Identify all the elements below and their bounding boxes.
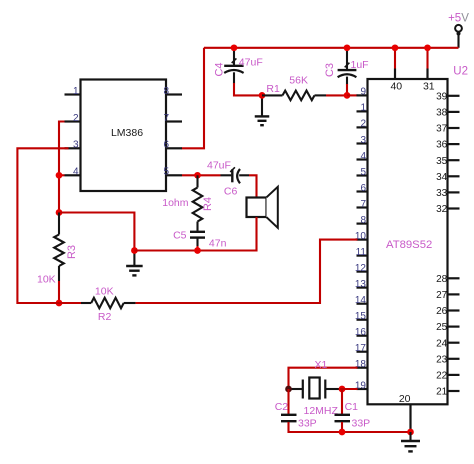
capacitor C2 bbox=[281, 414, 297, 416]
svg-text:47uF: 47uF bbox=[239, 56, 263, 68]
svg-text:3: 3 bbox=[73, 140, 79, 151]
pin 2 (LM386 left) bbox=[65, 120, 81, 122]
pin 2 (U2 left) bbox=[357, 126, 368, 128]
pin 31 bbox=[426, 69, 428, 80]
wire C5 to node bbox=[196, 246, 198, 251]
svg-text:5: 5 bbox=[360, 167, 366, 178]
svg-text:10K: 10K bbox=[95, 286, 114, 298]
pin 17 (U2 left) bbox=[357, 351, 368, 353]
pin 37 (U2 right) bbox=[448, 127, 460, 129]
svg-text:9: 9 bbox=[360, 87, 366, 98]
wire crystal left to C2 bbox=[287, 389, 289, 414]
pin 18 (U2 left) bbox=[357, 367, 368, 369]
wire R3 top to ground drop bbox=[59, 213, 134, 251]
svg-text:5: 5 bbox=[164, 167, 170, 178]
pin 24 (U2 right) bbox=[448, 342, 460, 344]
svg-text:3: 3 bbox=[360, 135, 366, 146]
node rail/pin40 bbox=[392, 44, 399, 51]
wire rail to LM386 pin 6 bbox=[182, 48, 205, 149]
node R1/C3/pin9 junction bbox=[344, 92, 351, 99]
pin 8 (LM386 right) bbox=[166, 93, 182, 95]
pin 7 (U2 left) bbox=[357, 206, 368, 208]
node pin5/R4/C6 junction bbox=[194, 172, 201, 179]
ground (C4/R1) bbox=[261, 95, 263, 116]
pin 20 bbox=[409, 404, 411, 431]
power terminal +5V bbox=[457, 32, 459, 48]
ground (C5 net) bbox=[133, 251, 135, 267]
node R3/R2 junction bbox=[56, 300, 63, 307]
svg-text:U2: U2 bbox=[453, 65, 468, 77]
svg-text:2: 2 bbox=[360, 119, 366, 130]
svg-text:38: 38 bbox=[436, 108, 448, 119]
node C1/bottom rail junction bbox=[339, 429, 346, 436]
pin 26 (U2 right) bbox=[448, 309, 460, 311]
svg-text:21: 21 bbox=[436, 387, 448, 398]
svg-text:C4: C4 bbox=[214, 62, 226, 76]
svg-text:28: 28 bbox=[436, 274, 448, 285]
op-amp U1 LM386 body bbox=[81, 80, 167, 192]
wire C1 to bottom rail bbox=[341, 422, 343, 432]
node crystal right / C1 junction bbox=[339, 386, 346, 393]
svg-text:7: 7 bbox=[360, 199, 366, 210]
svg-text:R2: R2 bbox=[98, 311, 112, 323]
svg-text:47n: 47n bbox=[209, 237, 227, 249]
resistor R1 bbox=[262, 94, 283, 96]
pin 8 (U2 left) bbox=[357, 223, 368, 225]
node pin20/ground junction bbox=[407, 429, 414, 436]
svg-text:33: 33 bbox=[436, 188, 448, 199]
crystal X1 bbox=[289, 388, 303, 390]
wire +5V rail bbox=[204, 47, 459, 49]
svg-text:6: 6 bbox=[164, 140, 170, 151]
pin 6 (U2 left) bbox=[357, 190, 368, 192]
capacitor C6 bbox=[221, 174, 232, 176]
svg-text:C2: C2 bbox=[275, 401, 289, 413]
capacitor C3 bbox=[346, 49, 348, 70]
wire C6 to speaker bbox=[249, 175, 257, 197]
svg-text:15: 15 bbox=[355, 311, 367, 322]
svg-text:1: 1 bbox=[360, 103, 366, 114]
capacitor C4 bbox=[233, 49, 235, 65]
wire crystal right to C1 bbox=[341, 389, 343, 414]
capacitor C1 bbox=[335, 414, 351, 416]
pin 1 (LM386 left) bbox=[65, 93, 81, 95]
svg-text:6: 6 bbox=[360, 183, 366, 194]
svg-text:2: 2 bbox=[73, 113, 79, 124]
svg-text:1uF: 1uF bbox=[351, 59, 369, 71]
wire ground node to C5 node bbox=[134, 249, 197, 251]
svg-text:56K: 56K bbox=[289, 75, 308, 87]
node rail/pin31 bbox=[424, 44, 431, 51]
wire LM386 pin4 stub bbox=[59, 174, 65, 176]
pin 23 (U2 right) bbox=[448, 358, 460, 360]
pin 36 (U2 right) bbox=[448, 143, 460, 145]
pin 5 (LM386 right) bbox=[166, 174, 182, 176]
pin 9 (U2 left) bbox=[357, 94, 368, 96]
wire node to C6 bbox=[198, 174, 221, 176]
svg-text:33P: 33P bbox=[298, 417, 317, 429]
pin 33 (U2 right) bbox=[448, 191, 460, 193]
svg-text:33P: 33P bbox=[352, 417, 371, 429]
svg-text:39: 39 bbox=[436, 91, 448, 102]
pin 14 (U2 left) bbox=[357, 303, 368, 305]
pin 15 (U2 left) bbox=[357, 319, 368, 321]
pin 10 (U2 left) bbox=[357, 239, 368, 241]
pin 3 (LM386 left) bbox=[65, 147, 81, 149]
svg-text:26: 26 bbox=[436, 306, 448, 317]
pin 22 (U2 right) bbox=[448, 374, 460, 376]
wire LM386 pin2 down bbox=[59, 122, 65, 213]
svg-text:32: 32 bbox=[436, 204, 448, 215]
pin 11 (U2 left) bbox=[357, 255, 368, 257]
node C4/ground/R1 junction bbox=[259, 92, 266, 99]
wire R1 to pin9 node bbox=[326, 94, 347, 96]
wire rail to pin 31 bbox=[426, 48, 428, 69]
pin 4 (U2 left) bbox=[357, 158, 368, 160]
resistor R2 bbox=[81, 302, 91, 304]
svg-text:8: 8 bbox=[360, 215, 366, 226]
node R3 top junction bbox=[56, 209, 63, 216]
svg-text:C6: C6 bbox=[224, 186, 238, 198]
wire R3 bottom bbox=[58, 281, 60, 303]
pin 7 (LM386 right) bbox=[166, 120, 182, 122]
IC U2 AT89S52 body bbox=[368, 79, 448, 404]
resistor R4 bbox=[196, 175, 198, 187]
wire crystal to pin 19 bbox=[340, 388, 358, 390]
pin 3 (U2 left) bbox=[357, 142, 368, 144]
pin 1 (U2 left) bbox=[357, 110, 368, 112]
pin 13 (U2 left) bbox=[357, 287, 368, 289]
wire node to pin 9 bbox=[347, 94, 358, 96]
svg-text:35: 35 bbox=[436, 156, 448, 167]
svg-text:47uF: 47uF bbox=[207, 160, 231, 172]
svg-text:7: 7 bbox=[164, 113, 170, 124]
pin 12 (U2 left) bbox=[357, 271, 368, 273]
svg-text:1ohm: 1ohm bbox=[162, 197, 189, 209]
wire pin18 to crystal left bbox=[289, 368, 358, 389]
pin 21 (U2 right) bbox=[448, 390, 460, 392]
svg-text:8: 8 bbox=[164, 86, 170, 97]
svg-text:24: 24 bbox=[436, 338, 448, 349]
pin 27 (U2 right) bbox=[448, 293, 460, 295]
svg-text:31: 31 bbox=[423, 81, 435, 93]
pin 38 (U2 right) bbox=[448, 111, 460, 113]
svg-text:11: 11 bbox=[356, 247, 367, 258]
svg-text:13: 13 bbox=[355, 279, 367, 290]
svg-text:R3: R3 bbox=[66, 245, 78, 259]
pin 34 (U2 right) bbox=[448, 175, 460, 177]
svg-text:X1: X1 bbox=[315, 359, 328, 371]
svg-text:36: 36 bbox=[436, 140, 448, 151]
pin 5 (U2 left) bbox=[357, 174, 368, 176]
svg-text:12: 12 bbox=[355, 263, 367, 274]
wire pin5 to node bbox=[182, 174, 198, 176]
wire C4 to ground node bbox=[234, 83, 262, 95]
wire speaker to C5 node bbox=[198, 217, 257, 251]
svg-text:4: 4 bbox=[73, 167, 79, 178]
pin 25 (U2 right) bbox=[448, 326, 460, 328]
svg-text:17: 17 bbox=[355, 343, 367, 354]
svg-text:4: 4 bbox=[360, 151, 366, 162]
pin 40 bbox=[394, 69, 396, 80]
pin 32 (U2 right) bbox=[448, 207, 460, 209]
svg-text:C3: C3 bbox=[324, 63, 336, 77]
node rail/C3 bbox=[344, 44, 351, 51]
svg-text:22: 22 bbox=[436, 371, 448, 382]
speaker LS1 bbox=[247, 198, 267, 218]
svg-text:10K: 10K bbox=[37, 273, 56, 285]
svg-text:20: 20 bbox=[399, 393, 411, 405]
svg-text:+5V: +5V bbox=[448, 12, 469, 24]
pin 16 (U2 left) bbox=[357, 335, 368, 337]
svg-text:40: 40 bbox=[390, 81, 402, 93]
pin 4 (LM386 left) bbox=[65, 174, 81, 176]
svg-text:16: 16 bbox=[355, 327, 367, 338]
wire rail to pin 40 bbox=[394, 48, 396, 69]
svg-text:12MHZ: 12MHZ bbox=[304, 405, 339, 417]
node C5/speaker/ground junction bbox=[194, 247, 201, 254]
pin 28 (U2 right) bbox=[448, 277, 460, 279]
svg-text:14: 14 bbox=[355, 295, 367, 306]
svg-text:R4: R4 bbox=[202, 197, 214, 211]
ground (pin 20) bbox=[409, 432, 411, 441]
node pin4 junction bbox=[56, 172, 63, 179]
svg-text:AT89S52: AT89S52 bbox=[386, 239, 432, 251]
pin 19 (U2 left) bbox=[357, 388, 368, 390]
pin 35 (U2 right) bbox=[448, 159, 460, 161]
wire R2 to pin 10 bbox=[136, 240, 358, 303]
svg-text:25: 25 bbox=[436, 322, 448, 333]
svg-text:34: 34 bbox=[436, 172, 448, 183]
wire C3 to pin9 node bbox=[346, 84, 348, 95]
capacitor C5 bbox=[190, 231, 205, 233]
svg-text:C5: C5 bbox=[173, 230, 187, 242]
svg-text:R1: R1 bbox=[266, 83, 280, 95]
node crystal left / C2 junction bbox=[285, 386, 292, 393]
svg-text:27: 27 bbox=[436, 290, 448, 301]
pin 39 (U2 right) bbox=[448, 95, 460, 97]
svg-text:23: 23 bbox=[436, 354, 448, 365]
svg-text:37: 37 bbox=[436, 124, 448, 135]
wire LM386 pin3 net bbox=[17, 148, 81, 303]
pin 6 (LM386 right) bbox=[166, 147, 182, 149]
svg-text:1: 1 bbox=[73, 86, 79, 97]
svg-text:LM386: LM386 bbox=[111, 127, 143, 139]
svg-text:C1: C1 bbox=[345, 401, 359, 413]
resistor R3 bbox=[58, 213, 60, 235]
node rail/C4 bbox=[231, 44, 238, 51]
wire C2 to bottom rail bbox=[289, 422, 411, 432]
node ground/C5 wire junction bbox=[131, 247, 138, 254]
